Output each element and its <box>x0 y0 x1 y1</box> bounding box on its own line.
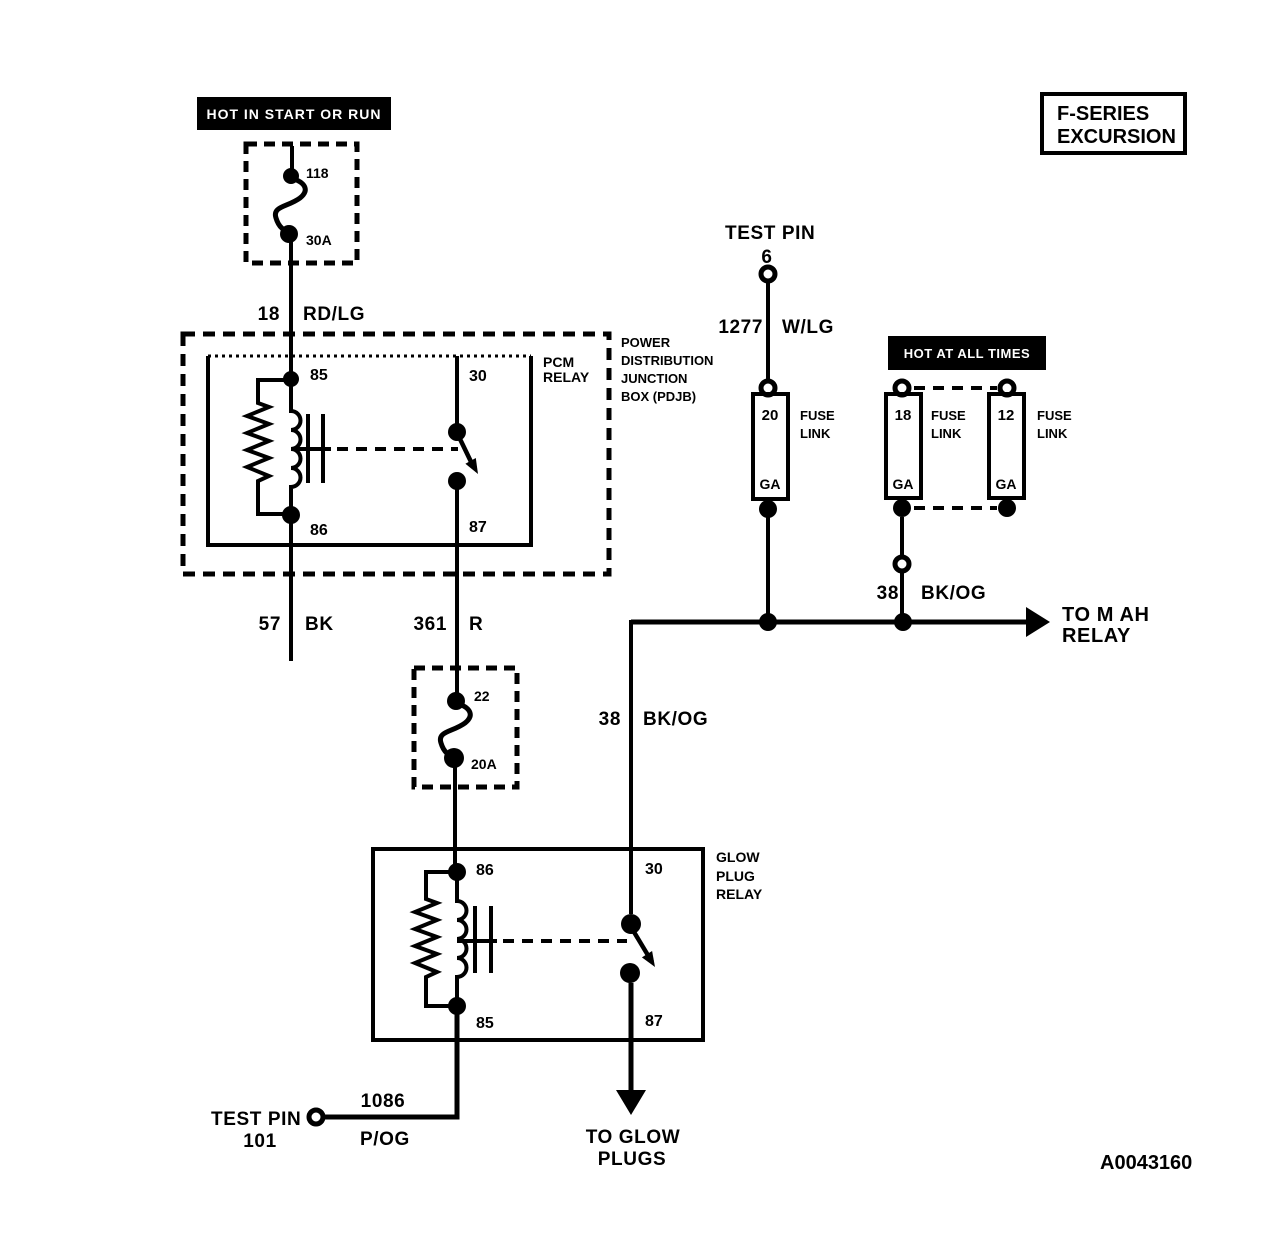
svg-text:38: 38 <box>599 709 621 730</box>
svg-text:HOT IN START OR RUN: HOT IN START OR RUN <box>206 106 381 122</box>
svg-text:RELAY: RELAY <box>716 886 763 902</box>
vehicle tag box F-SERIES EXCURSION <box>1042 94 1185 153</box>
svg-text:A0043160: A0043160 <box>1100 1152 1192 1174</box>
wire fuse link 20 to bus <box>766 509 770 622</box>
svg-text:BK: BK <box>305 614 334 635</box>
wire glow plug relay pin 87 down <box>629 983 634 1092</box>
wire fuse22 to glow plug relay <box>453 766 457 864</box>
svg-text:FUSE: FUSE <box>1037 408 1072 423</box>
glow plug relay coil <box>457 864 467 1014</box>
to MAH relay label <box>1062 604 1150 647</box>
wire glow plug relay pin 30 up to bus <box>629 620 633 914</box>
svg-text:87: 87 <box>645 1013 663 1030</box>
wire 361 R <box>455 489 459 693</box>
PCM relay switch arm <box>460 439 474 468</box>
wire 18 RD/LG <box>289 242 293 371</box>
bus junction dot at fuse link 20 <box>759 613 777 631</box>
fuse link 12 GA body <box>989 394 1024 498</box>
inline connector on wire 38 <box>895 557 909 571</box>
svg-text:BK/OG: BK/OG <box>643 709 708 730</box>
PCM relay coil core bars <box>306 414 310 483</box>
svg-text:RD/LG: RD/LG <box>303 304 365 325</box>
svg-text:22: 22 <box>474 688 490 704</box>
svg-text:30A: 30A <box>306 232 332 248</box>
glow plug relay pin 87 contact dot <box>620 963 640 983</box>
glow plug relay pin 85 dot <box>448 997 466 1015</box>
svg-text:18: 18 <box>895 407 912 424</box>
svg-text:1277: 1277 <box>718 317 763 338</box>
svg-text:DISTRIBUTION: DISTRIBUTION <box>621 353 713 368</box>
fuse link 12 bottom dot <box>998 499 1016 517</box>
fuse link 18 label <box>931 408 966 441</box>
PCM relay resistor <box>247 380 291 514</box>
arrow to glow plugs <box>616 1090 646 1115</box>
bus junction dot at wire 38 <box>894 613 912 631</box>
svg-text:20: 20 <box>762 407 779 424</box>
test pin 6 connector <box>761 267 775 281</box>
PCM relay pin 85 dot <box>283 371 299 387</box>
fuse 118 pin dot bottom <box>280 225 298 243</box>
glow plug relay pin 30 contact dot <box>621 914 641 934</box>
PCM relay pin 30 contact dot <box>448 423 466 441</box>
PDJB label <box>621 335 713 404</box>
svg-text:GA: GA <box>760 476 781 492</box>
svg-text:TEST PIN: TEST PIN <box>211 1109 301 1130</box>
svg-text:85: 85 <box>310 367 328 384</box>
to glow plugs label <box>586 1127 681 1170</box>
svg-text:86: 86 <box>476 862 494 879</box>
PCM relay pin 30 wire <box>455 356 459 424</box>
fuse 22 pin dot bottom <box>444 748 464 768</box>
fuse link 20 bottom dot <box>759 500 777 518</box>
fuse link 12 label <box>1037 408 1072 441</box>
fuse link 20 GA body <box>753 394 788 499</box>
svg-text:361: 361 <box>413 614 447 635</box>
fuse link 20 GA connector circle <box>761 381 775 395</box>
test pin 101 label <box>211 1109 301 1152</box>
wire 57 BK <box>289 523 293 661</box>
fuse link 18 bottom dot <box>893 499 911 517</box>
svg-text:101: 101 <box>243 1131 277 1152</box>
fuse link 20 label <box>800 408 835 441</box>
fuse 118 element <box>275 178 305 232</box>
test pin 6 label <box>725 223 815 268</box>
svg-text:87: 87 <box>469 519 487 536</box>
svg-text:LINK: LINK <box>1037 426 1068 441</box>
svg-text:BOX (PDJB): BOX (PDJB) <box>621 389 696 404</box>
glow plug relay actuator link <box>457 939 497 943</box>
fuse 22 pin dot top <box>447 692 465 710</box>
glow plug relay pin 86 dot <box>448 863 466 881</box>
fuse 118 30A dashed box <box>246 144 357 263</box>
glow plug relay box <box>373 849 703 1040</box>
svg-text:RELAY: RELAY <box>1062 625 1131 647</box>
svg-text:JUNCTION: JUNCTION <box>621 371 687 386</box>
svg-text:EXCURSION: EXCURSION <box>1057 126 1176 148</box>
PCM relay actuator link <box>291 447 331 451</box>
svg-text:12: 12 <box>998 407 1015 424</box>
arrow to MAH relay <box>1026 607 1050 637</box>
svg-text:LINK: LINK <box>931 426 962 441</box>
PDJB dashed box <box>183 334 609 574</box>
PCM relay label <box>543 354 590 385</box>
fuse link 12 GA connector circle <box>1000 381 1014 395</box>
svg-text:F-SERIES: F-SERIES <box>1057 103 1149 125</box>
dashed tie top of fuse links <box>914 386 997 390</box>
svg-text:TEST PIN: TEST PIN <box>725 223 815 244</box>
fuse link 18 GA body <box>886 394 921 498</box>
svg-text:GLOW: GLOW <box>716 849 760 865</box>
wire 1277 W/LG <box>766 278 770 384</box>
wire 38 BK/OG from fuse link 18 <box>900 517 904 622</box>
svg-text:HOT AT ALL TIMES: HOT AT ALL TIMES <box>904 346 1030 361</box>
svg-text:38: 38 <box>877 583 899 604</box>
svg-text:57: 57 <box>259 614 281 635</box>
svg-text:FUSE: FUSE <box>800 408 835 423</box>
svg-text:P/OG: P/OG <box>360 1129 410 1150</box>
svg-text:118: 118 <box>306 165 329 181</box>
svg-text:RELAY: RELAY <box>543 369 590 385</box>
test pin 101 connector <box>309 1110 323 1124</box>
fuse link 18 GA connector circle <box>895 381 909 395</box>
svg-text:20A: 20A <box>471 756 497 772</box>
svg-text:W/LG: W/LG <box>782 317 834 338</box>
glow plug relay resistor <box>415 872 457 1006</box>
svg-text:85: 85 <box>476 1015 494 1032</box>
power source label HOT IN START OR RUN <box>197 97 391 130</box>
fuse 22 20A dashed box <box>414 668 517 787</box>
fuse 22 element <box>440 703 470 757</box>
svg-text:BK/OG: BK/OG <box>921 583 986 604</box>
svg-text:TO GLOW: TO GLOW <box>586 1127 681 1148</box>
wire 1086 P/OG <box>325 1014 457 1117</box>
svg-text:PCM: PCM <box>543 354 574 370</box>
svg-text:PLUG: PLUG <box>716 868 755 884</box>
fuse 118 pin dot top <box>283 168 299 184</box>
dashed tie bottom of fuse links <box>914 506 997 510</box>
PCM relay pin 86 dot <box>282 506 300 524</box>
svg-text:18: 18 <box>258 304 280 325</box>
bus wire to MAH relay <box>631 620 1026 625</box>
glow plug relay coil core bars <box>473 906 477 973</box>
glow plug relay switch arm <box>634 932 652 962</box>
glow plug relay label <box>716 849 763 902</box>
svg-text:30: 30 <box>469 368 487 385</box>
svg-text:GA: GA <box>996 476 1017 492</box>
svg-text:86: 86 <box>310 522 328 539</box>
svg-text:30: 30 <box>645 861 663 878</box>
PCM relay coil <box>291 371 301 523</box>
svg-text:PLUGS: PLUGS <box>598 1149 666 1170</box>
wire into fuse 118 <box>290 146 294 172</box>
svg-text:LINK: LINK <box>800 426 831 441</box>
svg-text:R: R <box>469 614 483 635</box>
PCM relay pin 87 contact dot <box>448 472 466 490</box>
svg-text:GA: GA <box>893 476 914 492</box>
svg-text:1086: 1086 <box>361 1091 406 1112</box>
svg-text:TO M AH: TO M AH <box>1062 604 1150 626</box>
PCM relay box <box>208 356 531 545</box>
svg-text:FUSE: FUSE <box>931 408 966 423</box>
svg-text:POWER: POWER <box>621 335 671 350</box>
power source label HOT AT ALL TIMES <box>888 336 1046 370</box>
